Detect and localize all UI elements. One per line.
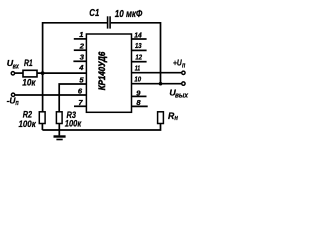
- terminal Uin: [11, 72, 14, 75]
- resistor R1: [23, 70, 37, 77]
- resistor Rn load: [158, 112, 164, 124]
- pin 3 stub: [73, 60, 86, 62]
- wire R2 bottom to bus: [41, 124, 43, 131]
- svg-text:10 мкФ: 10 мкФ: [115, 9, 143, 20]
- op-amp U1 КР140УД6 box: [86, 34, 131, 112]
- pin 7 stub: [74, 105, 86, 107]
- svg-text:+U: +U: [173, 58, 182, 68]
- svg-text:12: 12: [135, 52, 142, 61]
- wire pin 11 to +Up terminal: [132, 72, 182, 74]
- wire input terminal to R1: [15, 72, 23, 74]
- wire pin 10 to Uout terminal: [132, 83, 182, 85]
- pin 9 stub: [132, 95, 147, 97]
- output node junction dot: [159, 82, 163, 86]
- pin 8 stub: [132, 105, 148, 107]
- svg-text:п: п: [182, 60, 186, 69]
- svg-text:1: 1: [79, 30, 83, 39]
- svg-text:11: 11: [135, 64, 140, 73]
- node A junction dot: [41, 71, 45, 75]
- wire input node to pin 4: [37, 72, 86, 74]
- svg-text:С1: С1: [89, 8, 99, 19]
- wire -Up terminal to pin 6: [15, 94, 86, 96]
- ground bus wire: [42, 124, 160, 131]
- svg-text:R1: R1: [24, 58, 33, 68]
- wire top rail right segment down to output node: [111, 23, 161, 84]
- wire node A down to R2: [42, 73, 44, 112]
- pin 14 stub: [132, 38, 147, 40]
- svg-text:10к: 10к: [22, 77, 36, 87]
- pin 12 stub: [132, 61, 147, 63]
- svg-text:100к: 100к: [19, 119, 37, 130]
- svg-text:4: 4: [78, 63, 84, 72]
- wire R3 bottom to ground: [58, 124, 60, 136]
- resistor R3: [56, 112, 62, 124]
- terminal -Up: [11, 93, 14, 96]
- resistor R2: [39, 112, 45, 124]
- wire top rail left segment: [43, 23, 107, 73]
- svg-text:14: 14: [134, 31, 142, 40]
- ground: [54, 137, 66, 140]
- pin 2 stub: [74, 49, 87, 51]
- svg-text:КР140УД6: КР140УД6: [97, 51, 107, 90]
- svg-text:100к: 100к: [65, 118, 82, 129]
- capacitor C1: [108, 16, 111, 28]
- svg-text:10: 10: [134, 74, 141, 83]
- svg-text:вых: вых: [175, 91, 189, 100]
- svg-text:н: н: [174, 113, 178, 122]
- terminal +Up: [182, 71, 185, 74]
- svg-text:вх: вх: [13, 62, 20, 71]
- svg-text:п: п: [15, 98, 19, 107]
- terminal Uout: [182, 82, 185, 85]
- pin 1 stub: [74, 38, 87, 40]
- svg-text:13: 13: [135, 41, 142, 50]
- pin 13 stub: [132, 49, 147, 51]
- wire pin 5 to R3: [59, 84, 86, 112]
- svg-text:2: 2: [79, 42, 85, 51]
